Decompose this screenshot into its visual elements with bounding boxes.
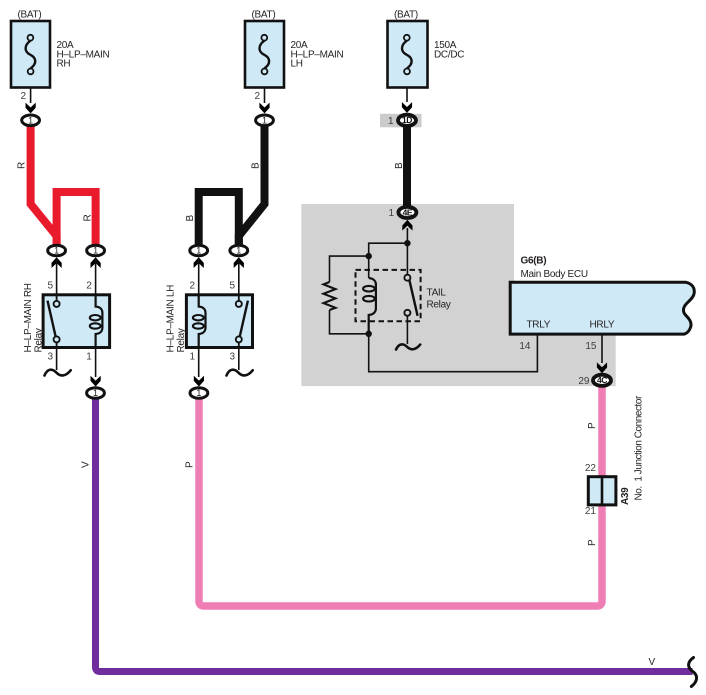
arrow into connector below F1 bbox=[26, 103, 36, 114]
svg-text:DC/DC: DC/DC bbox=[434, 49, 464, 60]
wire B: black branch loop bbox=[199, 192, 239, 247]
svg-text:1: 1 bbox=[28, 115, 33, 125]
svg-text:5: 5 bbox=[47, 281, 53, 292]
arrow into oval below RH pin 1 bbox=[91, 376, 101, 387]
svg-text:LH: LH bbox=[291, 59, 303, 70]
svg-text:1: 1 bbox=[196, 246, 201, 256]
svg-text:No. 1 Junction Connector: No. 1 Junction Connector bbox=[634, 395, 645, 500]
svg-text:H–LP–MAIN LH: H–LP–MAIN LH bbox=[166, 285, 177, 353]
svg-text:H–LP–MAIN RH: H–LP–MAIN RH bbox=[23, 283, 34, 352]
svg-text:21: 21 bbox=[585, 506, 597, 517]
svg-text:(BAT): (BAT) bbox=[394, 10, 418, 21]
connector ovals above LH relay bbox=[194, 257, 204, 268]
svg-text:A39: A39 bbox=[620, 487, 631, 505]
svg-text:HRLY: HRLY bbox=[590, 320, 615, 331]
svg-text:2: 2 bbox=[86, 281, 92, 292]
tail relay switch bbox=[404, 275, 410, 281]
svg-text:P: P bbox=[587, 422, 598, 429]
fuse F2 20A H-LP-MAIN LH bbox=[245, 10, 343, 103]
squiggle below LH pin 3 bbox=[227, 370, 253, 376]
connector oval 1 (F2 out) bbox=[256, 115, 274, 126]
wire B: black from fuse 3 to 4E bbox=[403, 126, 411, 207]
connector oval 4E with pin 1 bbox=[388, 207, 416, 219]
connector oval 1 (F1 out) bbox=[22, 115, 40, 126]
svg-text:(BAT): (BAT) bbox=[18, 10, 42, 21]
svg-text:R: R bbox=[17, 162, 28, 169]
wire: 4E down to switch bbox=[406, 243, 408, 275]
svg-text:1: 1 bbox=[196, 388, 201, 398]
wire: coil bottom down and right to TRLY pin 14 bbox=[369, 334, 538, 372]
wire P: pink U-path from LH relay to 4C bbox=[199, 386, 602, 606]
wire: branch to resistor bbox=[330, 256, 369, 282]
connector oval 1 (RH out) bbox=[87, 388, 105, 399]
wire R: red branch loop bbox=[57, 192, 96, 247]
junction connector A39 bbox=[585, 395, 645, 517]
svg-text:15: 15 bbox=[585, 341, 597, 352]
connector oval 4C with pin 29 bbox=[578, 375, 611, 387]
resistor (tail relay parallel) bbox=[324, 282, 336, 310]
svg-text:2: 2 bbox=[254, 91, 260, 102]
arrow into connector below F2 bbox=[259, 103, 269, 114]
arrow into connector 4C bbox=[597, 362, 607, 373]
svg-text:2: 2 bbox=[20, 91, 26, 102]
tail relay coil bbox=[369, 278, 376, 334]
arrow up into connector 4E bbox=[402, 220, 412, 231]
svg-text:14: 14 bbox=[519, 341, 531, 352]
svg-text:22: 22 bbox=[585, 463, 597, 474]
fuse F3 150A DC/DC bbox=[388, 10, 465, 102]
svg-text:(BAT): (BAT) bbox=[252, 10, 276, 21]
svg-text:G6(B): G6(B) bbox=[521, 256, 547, 267]
wire: branch to coil bbox=[369, 243, 408, 278]
svg-text:4E: 4E bbox=[403, 207, 413, 217]
svg-text:1: 1 bbox=[189, 352, 195, 363]
svg-text:2: 2 bbox=[189, 281, 195, 292]
grey band behind connector 1D bbox=[380, 114, 422, 128]
svg-text:1: 1 bbox=[236, 246, 241, 256]
wire B: black main from fuse 2 bbox=[239, 125, 265, 247]
svg-text:RH: RH bbox=[57, 59, 71, 70]
tail relay dashed box bbox=[356, 270, 421, 321]
svg-text:1: 1 bbox=[388, 208, 394, 219]
svg-text:29: 29 bbox=[578, 376, 590, 387]
svg-text:V: V bbox=[649, 657, 656, 668]
svg-text:V: V bbox=[81, 461, 92, 468]
arrow into connector 1D bbox=[402, 102, 412, 113]
wire: HRLY pin 15 down bbox=[601, 335, 603, 363]
arrow into oval below LH pin 1 bbox=[194, 376, 204, 387]
svg-text:TAIL: TAIL bbox=[427, 288, 447, 299]
junction dots bbox=[404, 240, 410, 246]
svg-text:4C: 4C bbox=[597, 375, 607, 385]
wire: switch to squiggle bbox=[406, 316, 408, 344]
page-break squiggle at purple wire end bbox=[689, 658, 697, 687]
svg-text:1: 1 bbox=[54, 246, 59, 256]
ECU G6(B) Main Body ECU box bbox=[510, 256, 694, 335]
svg-text:Relay: Relay bbox=[427, 300, 451, 311]
relay H-LP-MAIN LH bbox=[166, 259, 253, 377]
squiggle below RH pin 3 bbox=[45, 370, 71, 376]
svg-text:TRLY: TRLY bbox=[527, 320, 551, 331]
svg-text:B: B bbox=[394, 162, 405, 169]
fuse F1 20A H-LP-MAIN RH bbox=[11, 10, 109, 103]
svg-text:5: 5 bbox=[229, 281, 235, 292]
wire V: purple from RH relay to page edge bbox=[96, 398, 693, 672]
svg-text:P: P bbox=[185, 461, 196, 468]
wire: resistor bottom to coil bottom bbox=[330, 310, 369, 334]
svg-text:Relay: Relay bbox=[34, 328, 45, 352]
connector oval 1 (LH out) bbox=[190, 388, 208, 399]
svg-text:3: 3 bbox=[229, 352, 235, 363]
svg-text:P: P bbox=[587, 539, 598, 546]
connector ovals above RH relay bbox=[52, 257, 62, 268]
svg-text:R: R bbox=[82, 215, 93, 222]
svg-text:1: 1 bbox=[262, 115, 267, 125]
grey block: relay/ECU internal area bbox=[301, 204, 615, 386]
wire R: red main from fuse 1 bbox=[31, 125, 57, 247]
svg-text:1D: 1D bbox=[402, 115, 412, 125]
svg-text:B: B bbox=[185, 215, 196, 222]
svg-text:Main Body ECU: Main Body ECU bbox=[521, 269, 588, 280]
svg-text:1: 1 bbox=[93, 246, 98, 256]
connector oval 1D with pin 1 bbox=[388, 115, 416, 127]
svg-text:1: 1 bbox=[93, 388, 98, 398]
squiggle below tail relay switch bbox=[396, 344, 420, 349]
internal net: 4E to tail relay bbox=[406, 228, 408, 243]
svg-text:Relay: Relay bbox=[176, 328, 187, 352]
svg-text:3: 3 bbox=[47, 352, 53, 363]
svg-text:B: B bbox=[251, 162, 262, 169]
svg-text:1: 1 bbox=[388, 116, 394, 127]
relay H-LP-MAIN RH bbox=[23, 259, 110, 377]
svg-text:1: 1 bbox=[86, 352, 92, 363]
